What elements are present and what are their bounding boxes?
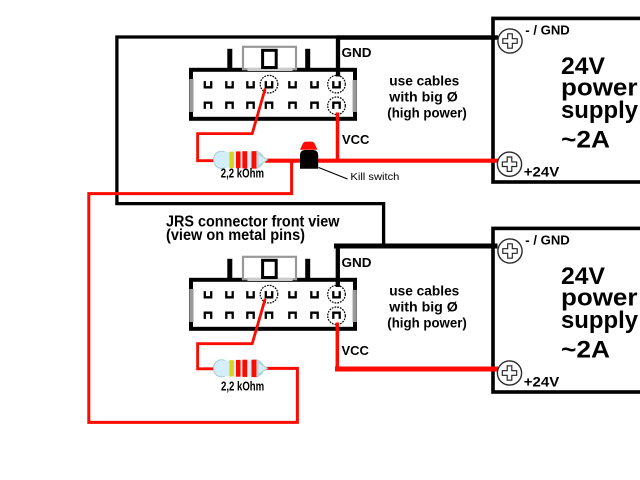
wire red J1 pin4 to resistor R1: [198, 89, 266, 161]
svg-text:(view on metal pins): (view on metal pins): [166, 227, 305, 244]
wire red R1 to kill switch to PS1 +24V: [265, 159, 498, 163]
J1 latch left: [227, 49, 232, 69]
svg-text:+24V: +24V: [524, 165, 559, 180]
J1 VCC pin marker circle: [328, 97, 346, 115]
terminal screw PS2 -/GND: [498, 239, 522, 263]
J1 body: [191, 70, 355, 119]
power supply PS2 box: [493, 228, 640, 392]
terminal screw PS2 +24V: [497, 361, 521, 385]
wire red loop kill-switch junction to resistor R2: [89, 161, 298, 423]
power supply PS1 box: [493, 18, 640, 182]
svg-text:VCC: VCC: [342, 343, 370, 358]
svg-text:GND: GND: [342, 45, 372, 60]
svg-text:with big Ø: with big Ø: [388, 89, 458, 105]
J2 polarization tab: [243, 257, 296, 279]
svg-text:supply: supply: [561, 307, 639, 334]
kill switch leader line: [319, 168, 348, 180]
wire GND horizontal into PS2 screw: [334, 244, 498, 249]
J1 key slot: [263, 50, 277, 67]
note JRS connector front view: [166, 213, 340, 243]
svg-text:2,2 kOhm: 2,2 kOhm: [221, 378, 264, 393]
J2 body: [191, 280, 355, 329]
svg-text:(high power): (high power): [387, 315, 467, 331]
wire GND thicker run into PS1 screw: [338, 35, 498, 39]
svg-text:- / GND: - / GND: [525, 23, 570, 38]
J2 latch left: [227, 259, 232, 279]
svg-text:~2A: ~2A: [561, 127, 610, 154]
wire J2 GND pin stub: [336, 246, 340, 287]
J1 pins bottom row: [205, 103, 340, 109]
resistor R2 2,2 kOhm: [214, 360, 268, 377]
svg-text:+24V: +24V: [524, 375, 559, 390]
J2 pins bottom row: [205, 313, 340, 319]
wire red J2 pin4 to resistor R2: [198, 299, 266, 369]
J2 pin 4 marker circle: [260, 285, 278, 303]
kill switch S1 body: [300, 150, 318, 169]
J1 polarization tab: [243, 47, 296, 69]
svg-text:VCC: VCC: [342, 132, 370, 147]
J2 pins top row: [205, 291, 340, 297]
wire red VCC stub J1: [336, 113, 340, 163]
svg-text:(high power): (high power): [387, 105, 467, 121]
svg-text:Kill switch: Kill switch: [350, 171, 399, 183]
wire red J2 VCC to PS2 +24V: [335, 367, 498, 372]
note use cables (circuit 2): [387, 282, 467, 330]
svg-text:2,2 kOhm: 2,2 kOhm: [221, 165, 264, 180]
J2 VCC pin marker circle: [328, 307, 346, 325]
J2 latch right: [305, 259, 310, 279]
kill switch S1 red cap: [300, 142, 317, 150]
note use cables (circuit 1): [387, 72, 467, 120]
connector J1 (JRS connector front view): [189, 47, 357, 119]
svg-text:GND: GND: [342, 255, 372, 270]
wire J1 GND pin stub: [336, 35, 340, 76]
svg-text:use cables: use cables: [389, 282, 459, 298]
J2 GND pin marker circle: [328, 285, 346, 303]
power supply PS2 label: [561, 263, 639, 364]
resistor R1 2,2 kOhm: [214, 151, 268, 168]
J2 key slot: [263, 260, 277, 277]
power supply PS1 label: [561, 53, 639, 154]
terminal screw PS1 +24V: [497, 152, 521, 176]
svg-text:supply: supply: [561, 97, 639, 124]
wire GND bus J1 to PS1 and down-left loop to PS2: [117, 37, 498, 247]
svg-text:with big Ø: with big Ø: [388, 299, 458, 315]
J1 pins top row: [205, 81, 340, 87]
wire red VCC stub J2: [336, 323, 340, 370]
svg-text:- / GND: - / GND: [525, 233, 570, 248]
svg-text:use cables: use cables: [389, 72, 459, 88]
connector J2 (JRS connector front view): [189, 257, 357, 329]
J1 pin 4 marker circle: [260, 75, 278, 93]
svg-text:~2A: ~2A: [561, 337, 610, 364]
terminal screw PS1 -/GND: [498, 29, 522, 53]
J1 GND pin marker circle: [328, 75, 346, 93]
J1 latch right: [305, 49, 310, 69]
